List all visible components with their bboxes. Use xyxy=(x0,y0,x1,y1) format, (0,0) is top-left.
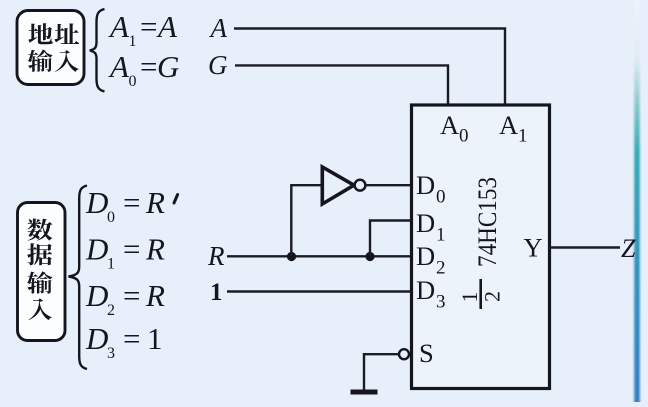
junction dot on R wire (to D1) xyxy=(365,252,374,261)
svg-text:Z: Z xyxy=(621,234,636,263)
pin label A0 xyxy=(416,110,543,368)
wire inverter to D0 pin xyxy=(365,184,411,186)
char ru xyxy=(55,50,79,72)
svg-text:Y: Y xyxy=(524,233,543,263)
wire G to A0 pin xyxy=(235,65,448,105)
svg-text:0: 0 xyxy=(107,209,115,226)
svg-text:A: A xyxy=(108,49,130,84)
svg-text:2: 2 xyxy=(480,291,505,302)
S input bubble xyxy=(399,349,409,359)
ground xyxy=(351,390,378,395)
svg-text:D: D xyxy=(416,241,435,271)
prime mark on R xyxy=(174,195,178,204)
wire junction up to D1 pin xyxy=(370,221,412,257)
svg-text:D: D xyxy=(416,275,435,305)
svg-text:R: R xyxy=(145,232,165,267)
svg-text:D: D xyxy=(416,208,435,238)
svg-text:1: 1 xyxy=(147,321,163,356)
svg-text:1: 1 xyxy=(457,292,482,303)
svg-text:=: = xyxy=(123,232,140,267)
svg-text:R: R xyxy=(207,241,225,271)
svg-text:D: D xyxy=(85,185,108,220)
wire R to D2 pin xyxy=(227,255,412,257)
fraction bar xyxy=(479,279,482,309)
svg-text:R: R xyxy=(145,185,165,220)
IC name 74HC153 rotated xyxy=(473,177,502,267)
char ju xyxy=(27,243,52,265)
char ru xyxy=(28,298,52,320)
svg-text:=: = xyxy=(123,321,140,356)
svg-text:1: 1 xyxy=(210,279,223,306)
char shu xyxy=(28,50,53,72)
svg-text:D: D xyxy=(85,232,108,267)
svg-text:A: A xyxy=(499,110,518,140)
svg-text:0: 0 xyxy=(459,126,469,147)
char zhi xyxy=(54,23,79,44)
fraction 1/2 denominator xyxy=(480,291,505,302)
inverter output bubble xyxy=(355,180,366,191)
char di xyxy=(28,23,52,44)
char shu(number) xyxy=(27,219,52,241)
svg-text:=: = xyxy=(123,278,140,313)
wire Y to Z xyxy=(550,246,621,248)
label box: address input (dizhi shuru) xyxy=(17,11,84,85)
svg-text:2: 2 xyxy=(436,258,446,279)
inverter G1 xyxy=(322,167,354,204)
svg-text:G: G xyxy=(208,50,228,80)
svg-text:D: D xyxy=(85,321,108,356)
svg-text:2: 2 xyxy=(107,302,115,319)
svg-text:3: 3 xyxy=(107,345,115,362)
svg-text:=: = xyxy=(140,49,157,84)
brace for address equations xyxy=(90,9,105,92)
junction dot on R wire (to inverter) xyxy=(287,252,296,261)
svg-text:D: D xyxy=(416,170,435,200)
svg-text:G: G xyxy=(157,49,179,84)
svg-text:=: = xyxy=(123,185,140,220)
svg-text:74HC153: 74HC153 xyxy=(473,177,502,267)
svg-text:R: R xyxy=(145,278,165,313)
svg-text:0: 0 xyxy=(436,187,446,208)
svg-text:0: 0 xyxy=(129,73,137,90)
brace for data equations xyxy=(69,186,88,370)
svg-text:=: = xyxy=(140,9,157,44)
svg-text:3: 3 xyxy=(436,292,446,313)
wire 1 to D3 pin xyxy=(227,290,412,292)
svg-text:1: 1 xyxy=(129,33,137,50)
equation A1 = A xyxy=(108,9,179,90)
svg-text:A: A xyxy=(440,110,459,140)
svg-text:A: A xyxy=(108,9,130,44)
fraction 1/2 numerator xyxy=(457,292,482,303)
svg-text:A: A xyxy=(156,9,178,44)
wire S to ground xyxy=(364,354,399,389)
char shu xyxy=(27,271,52,293)
data equations xyxy=(85,185,165,226)
svg-text:1: 1 xyxy=(436,225,446,246)
wire junction up to inverter input xyxy=(291,185,322,256)
wire A to A1 pin xyxy=(234,29,505,106)
svg-text:S: S xyxy=(419,338,434,368)
svg-text:D: D xyxy=(85,278,108,313)
svg-text:1: 1 xyxy=(107,256,115,273)
IC U1: 1/2 74HC153 xyxy=(412,105,550,389)
svg-text:A: A xyxy=(209,13,228,43)
svg-text:1: 1 xyxy=(518,126,528,147)
label box: data input (shuju shuru) xyxy=(18,203,66,341)
